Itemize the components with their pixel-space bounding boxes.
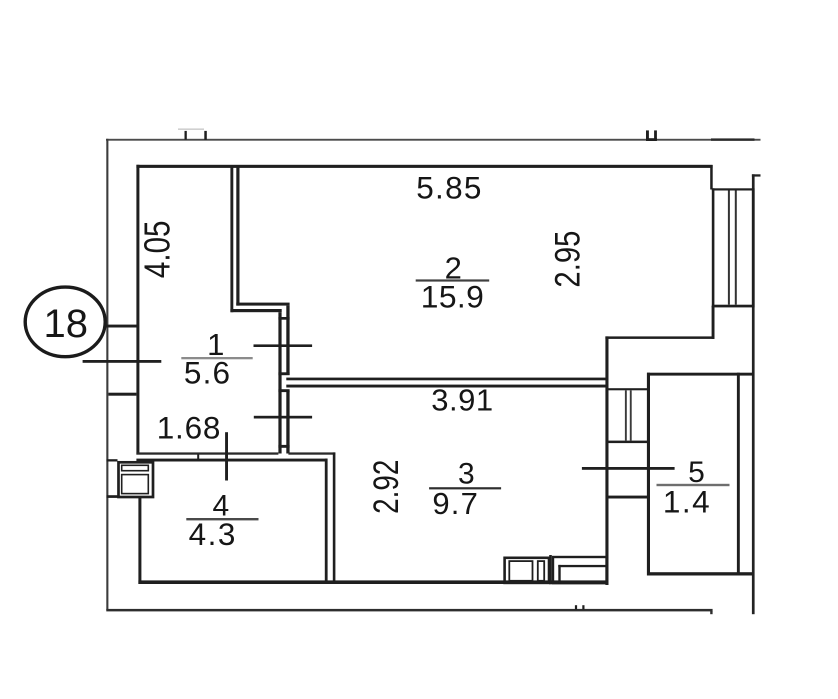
svg-text:3.91: 3.91 xyxy=(431,383,493,418)
sink inner horizontal line xyxy=(558,565,607,567)
room 5 left wall xyxy=(647,373,650,576)
door tick rooms 3/5 xyxy=(582,467,675,470)
svg-text:5.85: 5.85 xyxy=(416,169,483,205)
balcony window right edge xyxy=(752,188,755,307)
room 1 bottom wall thick line xyxy=(136,459,327,462)
vent box inner square xyxy=(122,475,149,494)
top u-shaped tick right leg xyxy=(654,130,657,140)
balcony window left edge xyxy=(712,188,715,307)
outer boundary bottom-right hook xyxy=(710,611,712,614)
room 4 right wall thick line vertical xyxy=(325,459,328,582)
room 1 bottom wall thin line right segment xyxy=(288,452,335,454)
room 3 label underline xyxy=(429,487,501,489)
room 1 label underline xyxy=(181,357,252,359)
tick below 1.68 xyxy=(225,432,228,480)
room 2 label underline xyxy=(416,279,490,281)
entrance crossing tick xyxy=(83,360,162,363)
room 1 divider cap at wall tee top xyxy=(278,372,289,375)
stove inner narrow rect xyxy=(538,561,544,581)
top-left wall tick 2 xyxy=(204,131,207,140)
room 1 divider lower right line lower segment xyxy=(286,391,289,454)
room 4 label underline xyxy=(186,518,258,520)
svg-text:18: 18 xyxy=(44,302,89,346)
svg-text:2.95: 2.95 xyxy=(548,231,587,288)
room 2/3 divider wall thick bottom line xyxy=(286,385,605,388)
balcony window inner line 1 xyxy=(728,191,730,305)
stove box outer xyxy=(505,558,549,583)
rooms 3/5 window bottom xyxy=(609,441,648,444)
sink box outer xyxy=(553,557,607,583)
small tick on room1 bottom wall xyxy=(197,454,199,460)
top u-shaped tick left leg xyxy=(646,130,649,140)
rooms 3/5 window inner line 2 xyxy=(630,390,632,440)
svg-text:1.68: 1.68 xyxy=(157,410,222,446)
vent box outer rect xyxy=(119,462,154,497)
outer boundary top line xyxy=(106,139,761,141)
room 1 divider cap at wall tee bottom xyxy=(278,389,289,392)
bottom tick 2 xyxy=(582,605,584,609)
room 1/2 divider upper outer line vertical xyxy=(230,166,233,312)
room 1/2 divider upper inner line step horizontal xyxy=(236,303,289,306)
balcony window inner line 2 xyxy=(735,191,737,305)
svg-text:15.9: 15.9 xyxy=(421,278,485,314)
door tick room1 upper xyxy=(254,344,313,347)
stove inner square xyxy=(509,561,532,581)
rooms 3/4 bottom wall xyxy=(138,580,608,584)
appliance divider line xyxy=(549,555,552,584)
vent box lower connector xyxy=(107,495,118,498)
svg-text:4.3: 4.3 xyxy=(189,516,237,552)
door tick room1 lower xyxy=(254,416,312,419)
room 1 divider lower left line xyxy=(278,312,281,453)
top-left wall tick 1 xyxy=(185,131,187,140)
outer boundary right line xyxy=(752,174,755,614)
outer boundary top-right tick xyxy=(752,174,761,176)
top-left faint connector xyxy=(178,129,204,130)
rooms 3/5 window inner line 1 xyxy=(625,390,627,440)
svg-text:2.92: 2.92 xyxy=(366,460,406,514)
room 1 bottom wall thin line left segment xyxy=(136,452,278,454)
step wall horizontal xyxy=(605,336,714,339)
entrance lower connector xyxy=(108,393,136,396)
balcony window top xyxy=(712,188,754,190)
balcony window bottom xyxy=(712,305,754,308)
room 1/2 divider upper inner line vertical xyxy=(236,166,239,306)
sink inner vertical line xyxy=(558,565,560,584)
room 1 divider lower right line upper segment xyxy=(286,306,289,375)
svg-text:1.4: 1.4 xyxy=(663,484,711,520)
vent box upper connector xyxy=(107,459,118,461)
room 3 left wall thin line vertical xyxy=(333,452,336,582)
room 5 label underline xyxy=(657,484,730,486)
inner top wall xyxy=(136,165,712,168)
bottom tick 1 xyxy=(575,605,577,609)
inner left wall xyxy=(136,165,139,455)
room 3 right wall xyxy=(605,336,608,585)
svg-text:5.6: 5.6 xyxy=(184,355,231,391)
outer boundary bottom line xyxy=(106,609,712,612)
room 1 divider cap lower xyxy=(278,445,289,448)
outer boundary top line darker right segment xyxy=(711,138,755,140)
svg-text:4.05: 4.05 xyxy=(137,221,178,279)
top u-shaped tick base xyxy=(646,138,657,141)
room 2 right wall upper segment xyxy=(710,165,713,190)
room 5 inner right wall xyxy=(737,373,740,576)
entrance leader line from circle xyxy=(105,325,137,328)
room 4 lower left wall xyxy=(138,498,141,585)
step wall vertical below window xyxy=(712,306,715,339)
outer boundary left line xyxy=(106,139,108,611)
room 5 top wall xyxy=(647,373,754,376)
vent box inner strip xyxy=(122,465,149,470)
svg-text:9.7: 9.7 xyxy=(432,486,479,521)
apartment number circle xyxy=(25,287,105,357)
room 2/3 divider wall thin top line xyxy=(286,378,605,381)
connector below rooms 3/5 window xyxy=(606,496,650,499)
room 1/2 divider upper outer line step horizontal xyxy=(230,309,281,312)
room 1 divider cap upper xyxy=(278,317,289,320)
room 5 bottom wall xyxy=(648,572,753,575)
rooms 3/5 window top xyxy=(609,388,648,390)
